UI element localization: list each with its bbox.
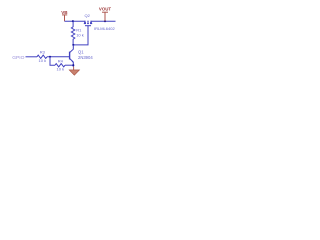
svg-text:VOUT: VOUT	[99, 7, 112, 12]
transistor Q2 (p-MOSFET)	[84, 20, 92, 26]
svg-text:2N3904: 2N3904	[78, 55, 93, 60]
svg-text:10 k: 10 k	[57, 66, 65, 71]
wire R3 to base of Q1	[47, 56, 70, 58]
wire gate of Q2 down to gate node	[73, 26, 88, 45]
wire emitter down	[72, 62, 74, 67]
resistor R4	[55, 64, 65, 67]
svg-text:R4: R4	[58, 58, 64, 63]
wire top rail right	[91, 20, 116, 22]
svg-text:10 k: 10 k	[76, 33, 84, 38]
wire branch down to R4	[50, 57, 55, 65]
resistor R1	[71, 21, 74, 45]
ground	[73, 67, 75, 71]
svg-text:R3: R3	[40, 49, 46, 54]
node emitter junction	[72, 64, 74, 66]
wire GPIO to R3	[26, 56, 38, 58]
wire R4 to emitter node	[65, 64, 73, 66]
node base branch junction	[49, 56, 51, 58]
power flag VOUT	[99, 7, 112, 22]
wire collector lead	[70, 45, 74, 53]
wire top rail	[65, 20, 86, 22]
resistor R3	[37, 55, 47, 58]
svg-text:10 k: 10 k	[39, 58, 47, 63]
svg-text:Q1: Q1	[78, 50, 84, 55]
node VOUT junction	[104, 20, 106, 22]
node VB rail junction	[72, 20, 74, 22]
svg-text:IRLML6402: IRLML6402	[94, 26, 115, 31]
svg-text:VB: VB	[61, 10, 68, 15]
svg-text:GPIO: GPIO	[12, 55, 24, 61]
power flag VB	[61, 10, 68, 21]
node gate junction	[72, 44, 74, 46]
transistor Q1 (NPN)	[70, 52, 74, 63]
svg-text:Q2: Q2	[85, 13, 91, 18]
